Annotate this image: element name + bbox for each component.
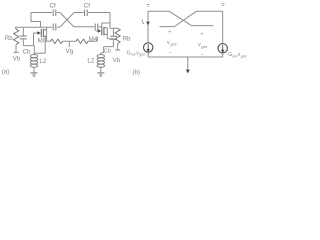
svg-text:Rb: Rb	[123, 36, 131, 43]
svg-text:(b): (b)	[132, 69, 140, 76]
svg-text:(a): (a)	[2, 69, 10, 76]
svg-text:+: +	[200, 32, 203, 38]
svg-text:gs3: gs3	[139, 53, 145, 57]
svg-text:m4: m4	[232, 54, 237, 58]
svg-text:M0: M0	[38, 38, 47, 45]
svg-text:Vb: Vb	[13, 55, 21, 62]
svg-text:M4: M4	[89, 36, 98, 43]
svg-text:−: −	[169, 50, 172, 56]
svg-text:Cf: Cf	[50, 2, 56, 9]
svg-text:Rb: Rb	[5, 35, 13, 42]
svg-text:Vb: Vb	[113, 57, 121, 64]
svg-text:gs4: gs4	[241, 54, 247, 58]
svg-text:m2: m2	[131, 53, 136, 57]
svg-text:L2: L2	[87, 58, 94, 65]
svg-text:Cb: Cb	[104, 49, 111, 55]
svg-text:Vg: Vg	[66, 48, 74, 55]
svg-text:−: −	[201, 52, 204, 58]
svg-text:gs3: gs3	[170, 43, 176, 47]
svg-text:Cb: Cb	[23, 48, 31, 55]
svg-text:Cf: Cf	[84, 2, 90, 9]
svg-text:gs4: gs4	[201, 45, 207, 49]
svg-text:+: +	[168, 30, 171, 36]
svg-text:L2: L2	[39, 58, 46, 65]
